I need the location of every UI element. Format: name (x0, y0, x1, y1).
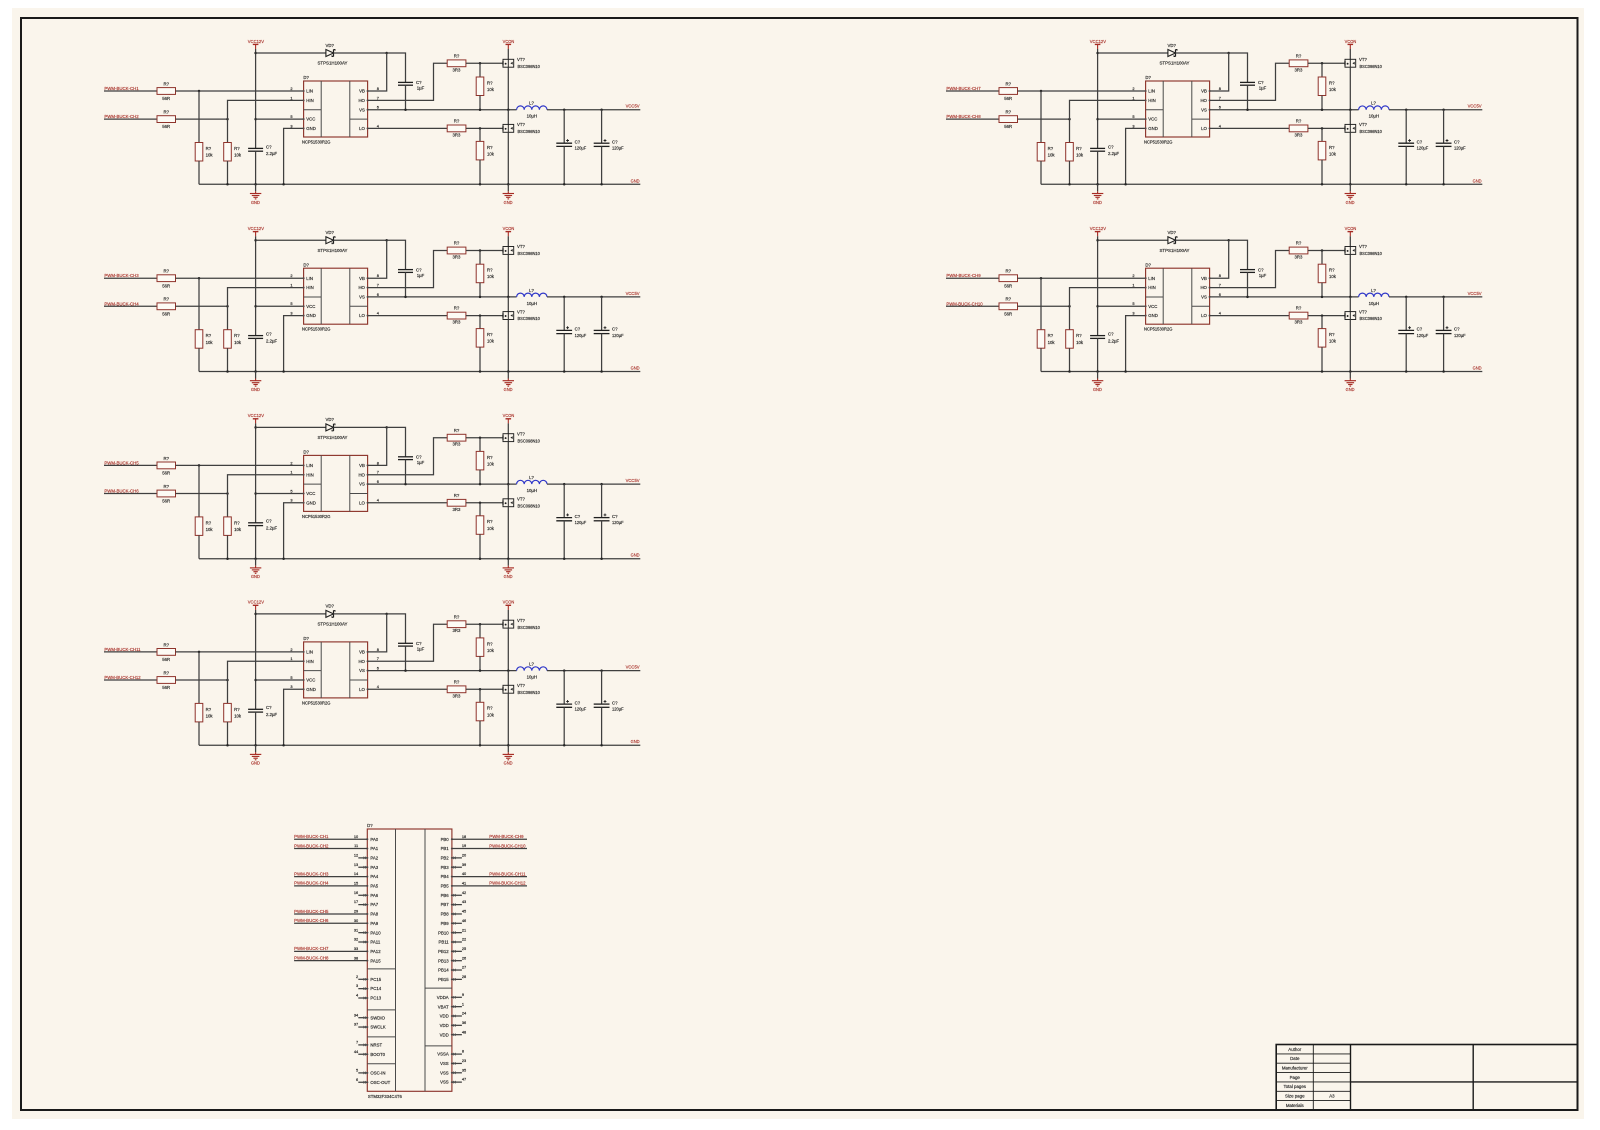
junction (479, 183, 482, 186)
svg-text:HIN: HIN (306, 98, 313, 103)
svg-text:R?: R? (164, 269, 170, 274)
svg-text:39: 39 (462, 862, 466, 867)
resistor R? 10k (low gate) (1318, 329, 1326, 348)
svg-text:NCP51530R2G: NCP51530R2G (302, 514, 331, 519)
svg-text:R?: R? (164, 110, 170, 115)
capacitor C? 120uF (output) (601, 484, 603, 517)
wire GND pin link (284, 316, 304, 372)
svg-text:56R: 56R (1004, 311, 1012, 316)
svg-text:1µF: 1µF (417, 273, 425, 278)
svg-text:C?: C? (416, 641, 422, 646)
resistor R? 3R3 (high side gate) (447, 60, 466, 67)
resistor R? 56R (CH11) (157, 649, 176, 656)
wire R 56R to LIN (176, 90, 304, 92)
resistor R? 3R3 (high side gate) (1289, 60, 1308, 67)
svg-text:VD?: VD? (1168, 230, 1177, 235)
svg-text:10k: 10k (1048, 153, 1056, 158)
svg-text:25: 25 (462, 946, 466, 951)
svg-text:35: 35 (462, 1067, 466, 1072)
svg-text:VT?: VT? (1359, 244, 1367, 249)
junction (479, 314, 482, 317)
capacitor C? 1uF (bootstrap) (398, 642, 413, 644)
svg-text:Size page: Size page (1285, 1094, 1305, 1099)
svg-text:VCC: VCC (306, 678, 315, 683)
svg-text:1µF: 1µF (417, 460, 425, 465)
svg-text:VB: VB (359, 276, 365, 281)
svg-text:VCON: VCON (503, 600, 515, 605)
svg-text:BSC098N10: BSC098N10 (518, 503, 541, 508)
wire R 3R3 to high gate (466, 437, 503, 439)
junction (479, 502, 482, 505)
wire VS to low FET drain (507, 297, 509, 312)
svg-text:GND: GND (504, 200, 513, 205)
svg-text:VCC: VCC (1148, 117, 1157, 122)
svg-text:Author: Author (1288, 1047, 1301, 1052)
svg-text:7: 7 (1219, 283, 1221, 288)
wire high gate pulldown (479, 63, 481, 77)
resistor R? 10k (high gate) (1318, 77, 1326, 96)
junction (479, 296, 482, 299)
junction (507, 296, 510, 299)
junction (198, 90, 201, 93)
svg-text:PA2: PA2 (370, 855, 378, 860)
svg-text:R?: R? (234, 520, 240, 525)
svg-text:VCC5V: VCC5V (626, 291, 641, 297)
svg-text:7: 7 (1219, 95, 1221, 100)
svg-text:D?: D? (303, 636, 309, 641)
svg-text:Manufacturer: Manufacturer (1282, 1065, 1308, 1070)
svg-text:VD?: VD? (326, 417, 335, 422)
svg-text:120µF: 120µF (575, 146, 587, 151)
svg-text:7: 7 (377, 283, 379, 288)
wire C 120uF to GND rail (601, 707, 603, 745)
resistor R? 56R (CH5) (157, 462, 176, 469)
resistor R? 10k (high gate) (476, 638, 484, 657)
svg-text:5: 5 (290, 114, 292, 119)
wire R 10k to GND rail (479, 534, 481, 558)
svg-text:R?: R? (164, 642, 170, 647)
wire low gate pulldown (479, 316, 481, 329)
svg-text:56R: 56R (162, 685, 170, 690)
junction (1096, 118, 1099, 121)
svg-text:GND: GND (306, 687, 316, 692)
wire VS to low FET drain (507, 484, 509, 499)
inductor L? 10uH (1359, 293, 1389, 297)
resistor R? 3R3 (low side gate) (447, 125, 466, 132)
svg-text:VT?: VT? (517, 309, 525, 314)
svg-text:120µF: 120µF (1417, 333, 1429, 338)
svg-text:STPS1H100AY: STPS1H100AY (318, 248, 348, 253)
svg-text:R?: R? (164, 484, 170, 489)
wire VB link (368, 240, 387, 278)
wire high FET source to VS (507, 67, 509, 110)
wire PWM-BUCK-CH12 to R 56R (104, 679, 157, 681)
junction (282, 370, 285, 373)
svg-text:3: 3 (1132, 123, 1134, 128)
svg-text:L?: L? (529, 101, 534, 106)
wire low FET source to GND rail (1349, 132, 1351, 184)
svg-text:R?: R? (1296, 241, 1302, 246)
wire R 3R3 to high gate (466, 62, 503, 64)
ground (1349, 184, 1351, 191)
svg-text:46: 46 (462, 918, 466, 923)
svg-text:10µH: 10µH (527, 488, 537, 493)
wire R 10k to GND rail (1069, 348, 1071, 371)
svg-text:10k: 10k (206, 340, 214, 345)
wire HIN link (228, 475, 304, 517)
svg-text:2: 2 (290, 460, 292, 465)
junction (1442, 296, 1445, 299)
svg-text:PA5: PA5 (370, 884, 378, 889)
wire diode to bootstrap node (334, 613, 387, 615)
wire HIN link (228, 100, 304, 142)
svg-text:GND: GND (251, 574, 260, 579)
resistor R? 10k (high gate) (1318, 264, 1326, 283)
wire C 2.2uF to GND rail (255, 712, 257, 745)
svg-text:10k: 10k (234, 153, 242, 158)
wire PWM-BUCK-CH4 to R 56R (104, 305, 157, 307)
wire GND pin link (284, 503, 304, 559)
svg-text:SWCLK: SWCLK (370, 1025, 385, 1030)
svg-text:HO: HO (1200, 285, 1207, 290)
wire R 10k to GND rail (479, 160, 481, 184)
wire high gate pulldown (1321, 63, 1323, 77)
junction (479, 127, 482, 130)
junction (600, 183, 603, 186)
svg-text:3: 3 (290, 498, 292, 503)
svg-text:STM32F334C4T6: STM32F334C4T6 (368, 1094, 403, 1099)
junction (226, 305, 229, 308)
wire C 120uF to GND rail (601, 334, 603, 372)
svg-text:2: 2 (290, 647, 292, 652)
svg-text:C?: C? (1417, 327, 1423, 332)
svg-text:PA9: PA9 (370, 921, 378, 926)
svg-text:GND: GND (631, 553, 640, 559)
svg-text:10k: 10k (487, 274, 495, 279)
junction (1321, 296, 1324, 299)
svg-text:C?: C? (1454, 139, 1460, 144)
ground (1097, 372, 1099, 379)
ground (507, 372, 509, 379)
svg-text:R?: R? (206, 333, 212, 338)
svg-text:3R3: 3R3 (452, 320, 460, 325)
svg-text:VD?: VD? (326, 230, 335, 235)
junction (600, 108, 603, 111)
wire R 10k to GND rail (479, 347, 481, 371)
wire VCON to high FET drain (1349, 236, 1351, 246)
svg-text:BOOT0: BOOT0 (370, 1052, 385, 1057)
wire C 120uF to GND rail (1443, 334, 1445, 372)
junction (226, 492, 229, 495)
wire VCC12V rail (255, 236, 257, 335)
svg-text:15: 15 (354, 881, 358, 886)
svg-text:5: 5 (1132, 114, 1134, 119)
svg-text:BSC098N10: BSC098N10 (518, 64, 541, 69)
resistor R? 10k (HIN pulldown) (224, 330, 232, 349)
svg-text:10µH: 10µH (1369, 301, 1379, 306)
capacitor C? 2.2uF (248, 147, 263, 149)
svg-text:2.2µF: 2.2µF (1108, 338, 1119, 343)
junction (385, 613, 388, 616)
svg-text:LO: LO (1201, 313, 1207, 318)
wire low gate pulldown (1321, 316, 1323, 329)
svg-text:GND: GND (1148, 126, 1158, 131)
svg-text:120µF: 120µF (612, 333, 624, 338)
svg-text:GND: GND (631, 739, 640, 745)
wire R 10k to VS (479, 96, 481, 110)
svg-text:C?: C? (612, 700, 618, 705)
svg-text:C?: C? (266, 705, 272, 710)
junction (1405, 183, 1408, 186)
svg-text:10k: 10k (1329, 274, 1337, 279)
svg-text:32: 32 (354, 937, 358, 942)
wire VCC5V output (547, 296, 640, 298)
svg-text:10k: 10k (1048, 340, 1056, 345)
svg-text:10µH: 10µH (1369, 114, 1379, 119)
transistor VT? BSC098N10 (high side) (503, 247, 514, 255)
wire R 10k to GND rail (227, 161, 229, 184)
svg-text:VCC: VCC (306, 304, 315, 309)
svg-text:VCC: VCC (1148, 304, 1157, 309)
svg-text:HO: HO (358, 285, 365, 290)
title block (1276, 1045, 1577, 1111)
wire low FET source to GND rail (507, 693, 509, 745)
svg-text:5: 5 (290, 488, 292, 493)
ground (255, 745, 257, 752)
wire GND rail (1041, 183, 1482, 185)
inductor L? 10uH (517, 106, 547, 110)
svg-text:45: 45 (462, 909, 466, 914)
wire VS switch node (1210, 296, 1359, 298)
wire LO link (368, 502, 448, 504)
junction (600, 483, 603, 486)
gate driver D? NCP51530R2G (304, 81, 368, 137)
junction (198, 651, 201, 654)
svg-text:PB2: PB2 (441, 855, 450, 860)
junction (600, 669, 603, 672)
svg-text:13: 13 (354, 862, 358, 867)
capacitor C? 120uF (output) (601, 297, 603, 331)
diode VD? STPS1H100AY (326, 237, 334, 244)
capacitor C? 1uF (bootstrap) (1240, 81, 1255, 83)
svg-text:7: 7 (377, 95, 379, 100)
resistor R? 56R (CH1) (157, 88, 176, 95)
wire R 10k to GND rail (227, 722, 229, 745)
wire high gate pulldown (1321, 251, 1323, 265)
wire R 10k to GND rail (198, 535, 200, 558)
svg-text:OSC-IN: OSC-IN (370, 1071, 385, 1076)
svg-text:R?: R? (234, 707, 240, 712)
svg-text:VS: VS (359, 668, 365, 673)
wire VCC tap (1098, 305, 1146, 307)
svg-text:3R3: 3R3 (1294, 255, 1302, 260)
svg-text:5: 5 (1132, 301, 1134, 306)
junction (563, 557, 566, 560)
wire R 3R3 to high gate (1308, 62, 1345, 64)
wire GND rail (1041, 371, 1482, 373)
svg-text:PA8: PA8 (370, 912, 378, 917)
ground (255, 559, 257, 566)
svg-text:VB: VB (359, 463, 365, 468)
svg-text:56R: 56R (162, 471, 170, 476)
svg-text:VB: VB (1201, 276, 1207, 281)
svg-text:HIN: HIN (306, 472, 313, 477)
wire low gate pulldown (1321, 128, 1323, 141)
resistor R? 56R (CH12) (157, 677, 176, 684)
svg-text:GND: GND (1093, 200, 1102, 205)
ground (1097, 184, 1099, 191)
svg-text:C?: C? (266, 144, 272, 149)
svg-text:2: 2 (1132, 273, 1134, 278)
resistor R? 56R (CH4) (157, 303, 176, 310)
svg-text:VCC12V: VCC12V (248, 226, 265, 231)
wire HIN link (1070, 288, 1146, 330)
wire VCC5V output (547, 109, 640, 111)
svg-text:17: 17 (354, 899, 358, 904)
wire LIN pulldown (198, 278, 200, 330)
svg-text:VSS: VSS (440, 1070, 449, 1075)
wire R 10k to VS (479, 656, 481, 670)
wire VCC tap (256, 118, 304, 120)
wire low FET source to GND rail (507, 507, 509, 559)
junction (1349, 108, 1352, 111)
svg-text:56R: 56R (1004, 96, 1012, 101)
transistor VT? BSC098N10 (low side) (1345, 312, 1356, 320)
svg-text:HO: HO (358, 472, 365, 477)
junction (226, 557, 229, 560)
wire bootstrap node to C 1uF (1229, 240, 1248, 269)
junction (1321, 370, 1324, 373)
wire high FET source to VS (1349, 67, 1351, 110)
svg-text:L?: L? (529, 662, 534, 667)
diode VD? STPS1H100AY (1168, 237, 1176, 244)
wire VCC5V output (1389, 109, 1482, 111)
svg-text:VS: VS (1201, 107, 1207, 112)
svg-text:LO: LO (359, 500, 365, 505)
junction (1096, 370, 1099, 373)
svg-text:VT?: VT? (1359, 57, 1367, 62)
svg-text:R?: R? (206, 707, 212, 712)
svg-text:26: 26 (462, 955, 466, 960)
svg-text:10µH: 10µH (527, 114, 537, 119)
svg-text:GND: GND (1473, 366, 1482, 372)
svg-text:NRST: NRST (370, 1043, 382, 1048)
wire VS to low FET drain (1349, 297, 1351, 312)
capacitor C? 2.2uF (248, 708, 263, 710)
svg-text:33: 33 (354, 946, 358, 951)
wire LO link (368, 315, 448, 317)
wire C 2.2uF to GND rail (255, 338, 257, 371)
svg-text:GND: GND (306, 313, 316, 318)
svg-text:1: 1 (462, 1001, 464, 1006)
junction (507, 108, 510, 111)
svg-text:C?: C? (575, 139, 581, 144)
svg-text:36: 36 (462, 1020, 466, 1025)
wire R 3R3 to high gate (466, 250, 503, 252)
resistor R? 10k (HIN pulldown) (224, 143, 232, 162)
svg-text:48: 48 (462, 1029, 466, 1034)
svg-text:PWM-BUCK-CH7: PWM-BUCK-CH7 (294, 946, 329, 952)
svg-text:BSC098N10: BSC098N10 (518, 438, 541, 443)
svg-text:10k: 10k (1076, 340, 1084, 345)
wire R 10k to VS (1321, 283, 1323, 297)
svg-text:R?: R? (454, 679, 460, 684)
svg-text:R?: R? (454, 241, 460, 246)
svg-text:C?: C? (266, 519, 272, 524)
svg-text:VCC5V: VCC5V (1468, 104, 1483, 110)
wire bootstrap node to C 1uF (387, 427, 406, 456)
svg-text:C?: C? (416, 267, 422, 272)
svg-text:R?: R? (234, 146, 240, 151)
svg-text:R?: R? (1329, 145, 1335, 150)
inductor L? 10uH (517, 667, 547, 671)
junction (479, 108, 482, 111)
svg-text:37: 37 (354, 1022, 358, 1027)
svg-text:56R: 56R (162, 96, 170, 101)
svg-text:29: 29 (354, 909, 358, 914)
transistor VT? BSC098N10 (high side) (1345, 59, 1356, 67)
svg-text:8: 8 (1219, 273, 1221, 278)
wire VCC12V to diode (1098, 239, 1168, 241)
junction (1227, 239, 1230, 242)
svg-text:3R3: 3R3 (452, 628, 460, 633)
wire VB link (368, 614, 387, 652)
junction (1405, 296, 1408, 299)
svg-text:GND: GND (1346, 200, 1355, 205)
svg-text:HIN: HIN (1148, 285, 1155, 290)
resistor R? 10k (LIN pulldown) (1037, 330, 1045, 349)
svg-text:6: 6 (356, 1077, 358, 1082)
wire low FET source to GND rail (1349, 319, 1351, 371)
wire C 1uF to VS (405, 85, 407, 110)
wire LO link (368, 127, 448, 129)
wire VB link (368, 427, 387, 465)
wire VCON to high FET drain (1349, 49, 1351, 59)
resistor R? 3R3 (low side gate) (447, 499, 466, 506)
junction (1321, 183, 1324, 186)
wire R 10k to GND rail (227, 348, 229, 371)
wire LIN pulldown (198, 465, 200, 517)
svg-text:SWDIO: SWDIO (370, 1015, 385, 1020)
svg-text:VT?: VT? (517, 431, 525, 436)
svg-text:GND: GND (1093, 387, 1102, 392)
junction (479, 623, 482, 626)
resistor R? 10k (low gate) (476, 329, 484, 348)
svg-text:HO: HO (1200, 98, 1207, 103)
wire VCC tap (256, 493, 304, 495)
junction (385, 426, 388, 429)
svg-text:VS: VS (1201, 295, 1207, 300)
wire R 3R3 to low gate (466, 502, 503, 504)
junction (479, 483, 482, 486)
capacitor C? 120uF (output) (563, 297, 565, 331)
junction (479, 557, 482, 560)
svg-text:10k: 10k (206, 153, 214, 158)
junction (1096, 183, 1099, 186)
svg-text:PWM-BUCK-CH2: PWM-BUCK-CH2 (294, 843, 329, 849)
resistor R? 3R3 (high side gate) (447, 621, 466, 628)
wire R 56R to LIN (176, 277, 304, 279)
svg-text:R?: R? (164, 670, 170, 675)
svg-text:VCC5V: VCC5V (626, 104, 641, 110)
svg-text:10k: 10k (487, 461, 495, 466)
wire GND rail (199, 744, 640, 746)
svg-text:LIN: LIN (1148, 276, 1155, 281)
wire PWM-BUCK-CH3 to R 56R (104, 277, 157, 279)
junction (507, 669, 510, 672)
svg-text:PA15: PA15 (370, 958, 381, 963)
svg-text:C?: C? (416, 80, 422, 85)
